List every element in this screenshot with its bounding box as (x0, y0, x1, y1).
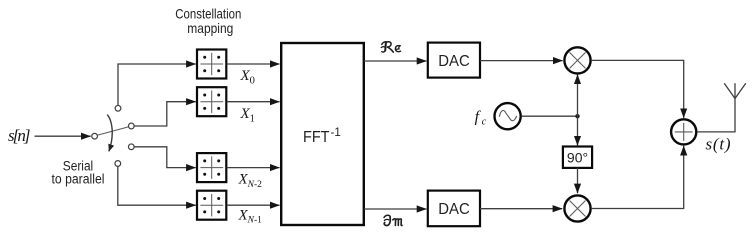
IFFT block FFT^-1 (281, 43, 364, 225)
oscillator fc label (475, 109, 487, 128)
DAC block DAC2 (428, 191, 480, 227)
svg-text:FFT: FFT (303, 129, 330, 146)
wire IFFT Re output to DAC1 (364, 60, 426, 62)
wire M3 to IFFT with label XN-2 (227, 167, 280, 169)
node switch contact 3 (128, 144, 134, 150)
node junction dot (575, 114, 579, 118)
node switch contact 1 (top) (115, 105, 121, 111)
phase shifter block 90deg (563, 147, 592, 168)
svg-text:to parallel: to parallel (52, 172, 105, 187)
svg-text:XN-1: XN-1 (238, 207, 263, 225)
net label Im (fraktur) (384, 215, 402, 225)
constellation mapper M2 (197, 87, 226, 116)
wire M4 to IFFT with label XN-1 (227, 204, 280, 206)
svg-text:s[n]: s[n] (8, 126, 31, 145)
wire contact3 to mapper M3 (134, 147, 195, 168)
constellation mapper M1 (197, 50, 226, 79)
svg-text:DAC: DAC (438, 53, 470, 70)
constellation mapper M4 (197, 191, 226, 220)
wire M2 to IFFT with label X1 (227, 101, 280, 103)
wire M1 to IFFT with label X0 (227, 63, 280, 65)
svg-text:f: f (475, 109, 482, 126)
wire contact4 to mapper M4 (118, 167, 196, 206)
label Constellation mapping (175, 5, 241, 36)
wire junction down into 90deg phase shifter (577, 116, 579, 145)
svg-text:DAC: DAC (438, 201, 470, 218)
node switch contact 4 (bottom) (115, 161, 121, 167)
value label X1 (240, 106, 255, 125)
switch rotation arc arrow (107, 115, 112, 152)
adder (summing junction) (671, 119, 696, 144)
label Serial to parallel (52, 158, 105, 186)
value label X0 (240, 68, 255, 87)
node s[n] input label (8, 126, 31, 145)
svg-text:X1: X1 (240, 106, 255, 125)
svg-text:X0: X0 (240, 68, 255, 87)
wire contact1 to mapper M1 (118, 64, 196, 105)
svg-text:s(t): s(t) (706, 134, 731, 153)
antenna (724, 83, 746, 98)
node s(t) output label (706, 134, 731, 153)
wire mixer MX1 to adder (top path) (592, 60, 684, 118)
node switch contact 2 (128, 123, 134, 129)
svg-text:c: c (482, 117, 487, 128)
svg-text:XN-2: XN-2 (238, 172, 263, 190)
wire adder to antenna (697, 99, 735, 132)
wire contact2 to mapper M2 (134, 102, 195, 126)
value label XN-2 (238, 172, 263, 190)
wire DAC2 to mixer MX2 (480, 208, 562, 210)
svg-text:-1: -1 (331, 127, 341, 139)
wire input arrow into switch pole (35, 135, 91, 137)
constellation mapper M3 (197, 153, 226, 182)
svg-text:90°: 90° (567, 149, 588, 165)
wire IFFT Im output to DAC2 (364, 208, 426, 210)
wire oscillator to junction (522, 115, 578, 117)
DAC block DAC1 (428, 43, 480, 78)
net label Re (fraktur) (381, 42, 400, 52)
value label XN-1 (238, 207, 263, 225)
wire junction up into mixer MX1 (577, 75, 579, 117)
mixer MX1 (multiplier) (564, 47, 590, 73)
wire switch arm (98, 127, 129, 135)
wire DAC1 to mixer MX1 (480, 60, 563, 62)
wire 90deg to mixer MX2 (577, 168, 579, 193)
node switch pole contact (92, 133, 98, 139)
wire mixer MX2 to adder (bottom path) (592, 146, 684, 209)
oscillator circle with sine (495, 103, 521, 129)
mixer MX2 (multiplier) (564, 195, 590, 221)
svg-text:mapping: mapping (187, 20, 233, 36)
